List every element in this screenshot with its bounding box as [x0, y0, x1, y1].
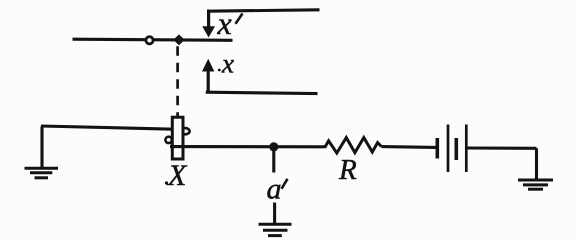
- arrow up shaft: [207, 70, 210, 93]
- wire: coil to resistor through node a': [170, 145, 323, 148]
- wire: input line with contact: [73, 39, 233, 40]
- wire: down from node a': [272, 147, 275, 173]
- arrow down (x' branch): shaft: [207, 10, 210, 29]
- wire: lower output line x: [206, 92, 318, 93]
- arrowhead up (x branch): [202, 59, 214, 72]
- ground G1: [25, 168, 59, 178]
- svg-text:a: a: [267, 173, 282, 206]
- ground G3: [518, 180, 553, 189]
- svg-text:R: R: [338, 154, 357, 186]
- wire: battery to right corner: [468, 146, 537, 149]
- wire: right vertical to ground: [535, 148, 538, 179]
- battery B1: plate 2 tall: [447, 125, 450, 173]
- node a' dot: [269, 142, 278, 151]
- coil X: core rectangle: [172, 117, 183, 159]
- contact: open circle: [146, 37, 153, 44]
- resistor R: [323, 138, 382, 153]
- wire: left horizontal to coil: [41, 126, 174, 129]
- ground G2: [259, 224, 292, 235]
- node: junction dot: [173, 34, 184, 45]
- svg-text:x: x: [221, 49, 234, 79]
- battery B1: plate 1 short: [435, 138, 439, 159]
- wire: to ground G2: [273, 203, 276, 224]
- svg-text:x: x: [217, 5, 232, 41]
- wire: left vertical to ground: [40, 126, 43, 167]
- coil X: right winding loop: [181, 128, 190, 134]
- wire: dashed link to coil X: [176, 46, 179, 116]
- wire: top output line x': [207, 10, 320, 11]
- arrowhead down: [202, 26, 215, 37]
- wire: resistor to battery: [382, 145, 437, 149]
- battery B1: plate 3 short: [454, 138, 458, 160]
- coil X: left winding loop: [165, 137, 171, 143]
- svg-text:X: X: [167, 159, 188, 192]
- battery B1: plate 4 tall: [465, 125, 468, 173]
